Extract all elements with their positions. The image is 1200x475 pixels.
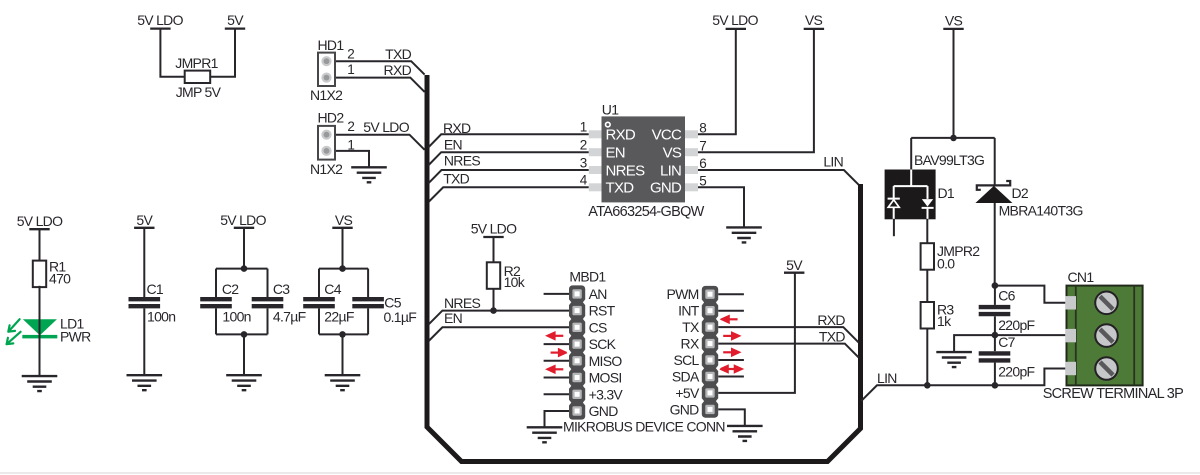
arrow RX direction (red right) <box>723 333 739 339</box>
wire +5V to 5V rail <box>718 273 795 393</box>
svg-text:C2: C2 <box>222 281 239 297</box>
svg-text:JMP 5V: JMP 5V <box>176 84 222 100</box>
capacitor C6 <box>979 307 1011 314</box>
wire C4 C5 parallel branch frame <box>319 228 368 375</box>
svg-text:ATA663254-GBQW: ATA663254-GBQW <box>588 204 704 220</box>
junction node C6 C7 mid <box>992 332 999 339</box>
net VS power rail (above U1) <box>804 28 824 30</box>
diode D2 schottky cathode bar <box>977 181 1010 190</box>
connector mikrobus right strip <box>702 286 718 418</box>
svg-text:MISO: MISO <box>589 353 623 369</box>
svg-text:2: 2 <box>347 47 354 62</box>
arrow SCL direction (red right) <box>723 349 739 355</box>
screw terminal CN1 pin stubs <box>1065 296 1076 375</box>
wire C6 top <box>994 286 996 305</box>
svg-text:INT: INT <box>678 303 700 319</box>
net VS power rail (C4 C5) <box>332 227 352 229</box>
svg-text:MIKROBUS DEVICE CONN: MIKROBUS DEVICE CONN <box>563 419 725 435</box>
IC U1 body ATA663254-GBQW <box>602 116 686 202</box>
op-amp U1 pin stubs <box>589 130 698 191</box>
wire R3 to LIN line <box>926 329 928 386</box>
svg-text:5V LDO: 5V LDO <box>471 221 517 237</box>
svg-text:22µF: 22µF <box>324 308 354 324</box>
svg-text:BAV99LT3G: BAV99LT3G <box>914 152 984 168</box>
wire mid node to CN1 pin2 <box>995 334 1067 336</box>
wire RXD board edge to U1 pin1 <box>428 134 589 147</box>
wire stub +3.3V <box>544 393 569 395</box>
svg-text:TXD: TXD <box>606 180 635 197</box>
svg-text:+5V: +5V <box>675 385 700 401</box>
svg-text:EN: EN <box>444 310 462 326</box>
arrow SDA direction (red both ways) <box>721 366 742 372</box>
arrow MOSI direction (red left) <box>548 366 564 372</box>
arrow MISO direction (red right) <box>551 350 566 356</box>
svg-text:VS: VS <box>805 12 823 28</box>
svg-text:MBD1: MBD1 <box>569 268 606 284</box>
svg-text:0.0: 0.0 <box>937 256 955 272</box>
screw terminal CN1 screw 1 <box>1095 292 1118 315</box>
net 5V power rail (C1) <box>134 227 154 229</box>
header HD1 pin 2 <box>321 56 331 66</box>
svg-text:1: 1 <box>347 137 354 152</box>
wire stub SCL <box>718 359 744 361</box>
junction node C2C3 bottom <box>241 331 248 338</box>
wire C1 top <box>143 228 145 297</box>
connector MBD1 pins <box>572 289 581 416</box>
LED light arrow 1 <box>8 319 19 332</box>
svg-text:EN: EN <box>444 137 462 153</box>
svg-text:1: 1 <box>347 62 354 77</box>
capacitor C5 <box>352 299 384 306</box>
svg-text:2: 2 <box>347 119 354 134</box>
wire VS to D2 cathode <box>994 138 996 185</box>
arrow SCK direction (red left) <box>548 333 564 339</box>
svg-text:VS: VS <box>663 145 682 162</box>
svg-text:TXD: TXD <box>385 46 411 62</box>
wire U1 pin5 GND to ground <box>698 187 744 227</box>
svg-text:C6: C6 <box>998 288 1015 304</box>
IC U1 left pin names <box>606 127 646 197</box>
wire C2 C3 parallel branch frame <box>216 228 268 375</box>
header HD1 pin 1 <box>321 73 331 83</box>
junction node C4C5 bottom <box>339 331 346 338</box>
resistor R1 <box>33 261 46 288</box>
ground under MBD1 <box>527 427 563 442</box>
connector MBD1 strip <box>569 285 585 419</box>
labels mikrobus right pin names <box>666 286 699 417</box>
net 5V LDO power rail (R2) <box>483 236 503 238</box>
net 5V power rail (mikrobus) <box>784 272 804 274</box>
svg-text:RXD: RXD <box>443 120 471 136</box>
wire stub PWM <box>718 293 744 295</box>
net 5V LDO power rail (above U1) <box>726 28 746 30</box>
svg-text:LIN: LIN <box>660 162 681 179</box>
svg-text:5V: 5V <box>227 12 244 28</box>
wire VS rail down to D1 D2 <box>911 29 995 138</box>
wire right GND to ground <box>718 409 745 426</box>
svg-text:7: 7 <box>699 138 706 153</box>
svg-text:TXD: TXD <box>443 170 469 186</box>
wire C6 bottom to mid node <box>994 316 996 335</box>
wire D1 pin stub (nc) <box>893 219 895 236</box>
LED LD1 cathode bar <box>22 335 57 339</box>
wire R1 to LED to ground <box>39 286 41 376</box>
wire MBD1 GND to ground <box>545 411 570 427</box>
resistor R3 <box>921 302 934 329</box>
svg-text:2: 2 <box>580 138 587 153</box>
click board outline (thick boundary shape) <box>427 75 861 462</box>
labels MBD1 pin names <box>589 286 624 419</box>
wire EN board edge to U1 pin2 <box>428 152 589 165</box>
diode D1 left element (anode up) <box>888 200 899 208</box>
svg-text:JMPR1: JMPR1 <box>175 55 218 71</box>
svg-text:U1: U1 <box>602 102 619 118</box>
header HD2 pin 1 <box>321 146 331 156</box>
ground under C4 C5 <box>325 375 361 390</box>
junction node R3 LIN <box>924 382 931 389</box>
svg-text:AN: AN <box>589 286 607 302</box>
svg-text:C3: C3 <box>273 281 290 297</box>
screw terminal CN1 screw 2 <box>1095 324 1118 347</box>
svg-text:470: 470 <box>49 271 71 287</box>
svg-text:NRES: NRES <box>606 162 646 179</box>
svg-text:RXD: RXD <box>384 62 412 78</box>
svg-text:SCL: SCL <box>673 352 699 368</box>
wire stub SCK <box>544 343 569 345</box>
net 5V LDO power rail (JMPR1 left) <box>150 28 170 30</box>
svg-text:5V LDO: 5V LDO <box>220 212 266 228</box>
wire stub MOSI <box>544 377 569 379</box>
wire 5V LDO rail to JMPR1 <box>160 29 184 77</box>
wire mid node to ground <box>954 335 995 352</box>
svg-text:GND: GND <box>670 401 700 417</box>
svg-text:6: 6 <box>699 156 706 171</box>
wire HD1 pin1 RXD to board edge <box>335 78 425 92</box>
wire D2 anode down <box>994 203 996 286</box>
resistor R2 <box>487 262 500 289</box>
svg-text:CS: CS <box>589 319 607 335</box>
arrow TX direction (red left) <box>722 316 738 322</box>
wire rail to R2 <box>493 237 495 262</box>
junction node NRES R2 <box>490 307 497 314</box>
net 5V LDO power rail (R1) <box>29 228 49 230</box>
capacitor C3 <box>252 299 284 306</box>
capacitor C7 <box>979 353 1011 360</box>
svg-text:220pF: 220pF <box>998 317 1034 333</box>
wire LIN from board edge to CN1 pin3 <box>861 369 1067 402</box>
diode D1 right element (cathode down, solid) <box>922 199 933 207</box>
svg-text:D1: D1 <box>938 185 955 201</box>
svg-text:SCK: SCK <box>589 336 617 352</box>
wire RX to board edge (TXD) <box>718 344 858 358</box>
svg-text:C5: C5 <box>384 294 401 310</box>
capacitor C2 <box>200 299 232 306</box>
svg-text:TXD: TXD <box>819 328 845 344</box>
wire rail to R1 <box>39 229 41 260</box>
IC U1 pin numbers left <box>580 120 588 188</box>
diode D1 body BAV99LT3G <box>885 170 936 220</box>
capacitor C4 <box>303 299 335 306</box>
diode D2 body <box>975 186 1012 203</box>
svg-text:GND: GND <box>650 180 682 197</box>
svg-text:3: 3 <box>580 155 587 170</box>
svg-text:VS: VS <box>335 212 353 228</box>
screw terminal CN1 inner lines <box>1076 286 1134 386</box>
svg-text:5V LDO: 5V LDO <box>712 12 758 28</box>
wire TX to board edge (RXD) <box>718 327 858 342</box>
svg-text:VCC: VCC <box>652 127 682 144</box>
svg-text:1k: 1k <box>937 313 952 329</box>
svg-text:PWM: PWM <box>666 286 698 302</box>
svg-text:MBRA140T3G: MBRA140T3G <box>999 203 1083 219</box>
diode D1 internal wiring <box>888 170 934 220</box>
junction node VS split <box>950 135 957 142</box>
ground under C1 <box>127 375 163 390</box>
svg-text:100n: 100n <box>147 308 175 324</box>
wire R2 to NRES node <box>493 289 495 311</box>
wire stub AN <box>544 293 569 295</box>
wire C7 top <box>994 335 996 351</box>
wire U1 pin8 VCC to 5V LDO rail <box>698 29 736 134</box>
svg-text:GND: GND <box>589 403 619 419</box>
header HD2 <box>318 126 335 160</box>
wire EN board edge to MBD1 CS <box>429 327 569 341</box>
wire stub MISO <box>544 360 569 362</box>
junction node C7 LIN <box>992 382 999 389</box>
net 5V LDO power rail (C2 C3) <box>234 227 254 229</box>
bottom page edge line <box>0 472 1200 474</box>
wire TXD board edge to U1 pin4 <box>429 187 589 201</box>
connector mikrobus right pins <box>705 290 714 415</box>
svg-text:5V: 5V <box>136 212 153 228</box>
svg-text:RXD: RXD <box>606 127 636 144</box>
capacitor C1 <box>129 299 161 306</box>
net VS power rail (top right) <box>943 28 963 30</box>
svg-text:5V LDO: 5V LDO <box>363 119 409 135</box>
ground under C2 C3 <box>226 375 262 390</box>
wire JMPR2 to R3 <box>926 270 928 302</box>
LED LD1 triangle <box>23 319 57 335</box>
svg-text:5V LDO: 5V LDO <box>17 213 63 229</box>
svg-text:0.1µF: 0.1µF <box>384 309 417 325</box>
svg-text:5: 5 <box>699 173 706 188</box>
screw terminal CN1 screw 3 <box>1095 357 1118 380</box>
svg-text:8: 8 <box>699 120 706 135</box>
wire NRES board edge to U1 pin3 <box>428 170 588 183</box>
ground under HD2 <box>351 167 387 182</box>
svg-text:RX: RX <box>681 336 700 352</box>
svg-text:SCREW TERMINAL 3P: SCREW TERMINAL 3P <box>1043 386 1183 402</box>
ground under U1 pin5 <box>726 227 762 242</box>
svg-text:RXD: RXD <box>817 312 845 328</box>
svg-text:MOSI: MOSI <box>589 370 622 386</box>
wire stub SDA <box>718 376 744 378</box>
svg-text:EN: EN <box>606 145 625 162</box>
svg-text:C7: C7 <box>998 334 1015 350</box>
svg-text:D2: D2 <box>1012 185 1029 201</box>
header HD1 <box>318 53 335 86</box>
jumper JMPR1 <box>185 71 211 83</box>
connector mikrobus right segment notches <box>700 300 721 405</box>
svg-text:LIN: LIN <box>877 370 897 386</box>
svg-text:VS: VS <box>945 13 963 29</box>
svg-text:NRES: NRES <box>444 153 480 169</box>
wire D2 node to CN1 pin1 <box>995 286 1067 303</box>
svg-text:220pF: 220pF <box>998 364 1034 380</box>
junction node C2C3 top <box>241 265 248 272</box>
IC U1 pin1 marker dot <box>606 122 611 127</box>
connector MBD1 segment notches <box>567 299 588 405</box>
wire NRES board edge to MBD1 RST <box>429 311 569 325</box>
svg-text:TX: TX <box>682 319 700 335</box>
wire C1 bottom <box>143 308 145 375</box>
net 5V power rail (JMPR1 right) <box>225 28 245 30</box>
svg-text:LIN: LIN <box>823 154 843 170</box>
svg-text:PWR: PWR <box>60 329 91 345</box>
wire U1 pin6 LIN to board edge <box>698 170 859 185</box>
svg-text:+3.3V: +3.3V <box>589 386 624 402</box>
svg-text:5V LDO: 5V LDO <box>137 12 183 28</box>
wire D1 to JMPR2 <box>926 219 928 243</box>
svg-text:4.7µF: 4.7µF <box>273 308 306 324</box>
wire HD1 pin2 TXD to board edge <box>335 61 425 74</box>
svg-text:HD1: HD1 <box>318 37 345 53</box>
svg-text:1: 1 <box>580 120 587 135</box>
wire stub INT <box>718 310 744 312</box>
wire HD2 pin1 to ground <box>335 151 369 167</box>
screw terminal CN1 body <box>1067 286 1143 386</box>
svg-text:NRES: NRES <box>444 295 480 311</box>
svg-text:5V: 5V <box>786 257 803 273</box>
ground under LD1 <box>22 376 58 391</box>
IC U1 right pin names <box>650 127 682 197</box>
svg-text:SDA: SDA <box>672 369 700 385</box>
svg-text:N1X2: N1X2 <box>310 161 343 177</box>
svg-text:C4: C4 <box>324 281 341 297</box>
wire HD2 pin2 5V LDO to board edge <box>335 135 425 150</box>
svg-text:CN1: CN1 <box>1068 269 1095 285</box>
wire U1 pin7 to VS rail <box>698 29 814 152</box>
wire VS to D1 <box>910 138 912 170</box>
svg-text:N1X2: N1X2 <box>310 87 343 103</box>
junction node C4C5 top <box>339 265 346 272</box>
wire 5V rail to JMPR1 <box>210 29 235 77</box>
svg-text:10k: 10k <box>504 274 526 290</box>
jumper JMPR2 <box>921 243 934 270</box>
svg-text:4: 4 <box>580 173 588 188</box>
IC U1 pin numbers right <box>699 120 706 188</box>
svg-text:HD2: HD2 <box>318 110 345 126</box>
ground at C6 C7 mid <box>936 352 972 367</box>
ground under mikrobus right <box>727 426 763 441</box>
header HD2 pin 2 <box>321 130 331 140</box>
LED light arrow 2 <box>7 332 21 344</box>
junction node D2 C6 <box>992 282 999 289</box>
svg-text:C1: C1 <box>147 281 164 297</box>
wire C7 bottom to LIN <box>994 363 996 386</box>
svg-text:100n: 100n <box>222 308 250 324</box>
svg-text:RST: RST <box>589 303 616 319</box>
